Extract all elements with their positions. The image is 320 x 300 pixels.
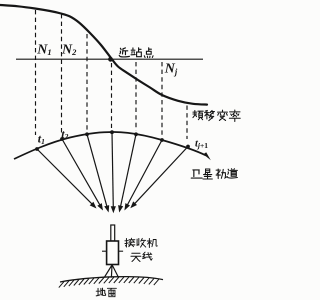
ground hatching xyxy=(59,277,159,288)
orbit dot t1 xyxy=(35,147,39,151)
receiver body xyxy=(107,241,119,265)
svg-text:N1: N1 xyxy=(36,43,51,58)
ground line xyxy=(60,277,163,282)
satellite orbit curve xyxy=(14,132,206,159)
orbit dot 5 xyxy=(134,132,138,136)
label dimian (ground) xyxy=(96,288,116,297)
orbit dot t2 xyxy=(60,137,64,141)
signal ray 6 xyxy=(124,140,162,211)
svg-text:Nj: Nj xyxy=(164,62,178,77)
antenna rod xyxy=(111,225,115,241)
signal ray 2 xyxy=(62,139,103,211)
signal ray 3 xyxy=(87,134,109,212)
orbit dot t j+1 xyxy=(186,145,190,149)
label weixingguidao (satellite orbit) xyxy=(191,169,237,179)
dashed line 5 xyxy=(135,62,137,131)
dashed line 3 xyxy=(86,34,88,130)
label tianxian (antenna) xyxy=(131,252,152,261)
orbit arrowhead xyxy=(203,152,211,160)
tripod xyxy=(104,265,118,278)
svg-text:N2: N2 xyxy=(61,43,77,58)
orbit dot 4 xyxy=(110,130,114,134)
time axis line xyxy=(16,58,203,60)
signal ray 4 xyxy=(111,132,116,213)
dashed line N2 xyxy=(61,14,63,134)
svg-text:tj+1: tj+1 xyxy=(195,138,208,150)
signal ray 5 xyxy=(118,134,136,212)
label jieshouji (receiver) xyxy=(125,238,157,247)
side tick left xyxy=(102,250,107,252)
signal ray 7 xyxy=(130,147,188,209)
dashed line Nj xyxy=(161,62,163,136)
label pinyibianlv (frequency shift rate) xyxy=(193,110,240,121)
doppler frequency curve xyxy=(0,5,207,105)
orbit dot 6 xyxy=(160,138,164,142)
dashed line 4 (near point) xyxy=(111,63,113,128)
near point dot xyxy=(108,57,113,62)
dashed line N1 xyxy=(35,10,37,135)
side tick right xyxy=(119,250,124,252)
svg-text:t1: t1 xyxy=(38,131,45,146)
dashed line t j+1 xyxy=(186,106,188,140)
label jinzhandian (near point) xyxy=(119,48,153,58)
signal ray 1 xyxy=(37,149,97,209)
orbit dot 3 xyxy=(85,132,89,136)
